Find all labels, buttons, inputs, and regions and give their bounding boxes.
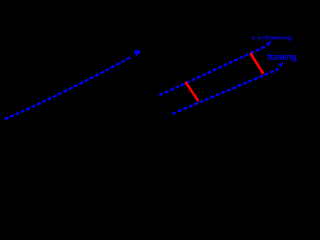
node: left vector arrowhead tip xyxy=(134,50,142,56)
svg-text:v o=framing: v o=framing xyxy=(251,35,292,41)
wire: upper-right dashed trajectory xyxy=(159,47,265,96)
node: lower-right arrowhead tip xyxy=(278,62,283,67)
wire: red spacing tick 1 (left rung) xyxy=(185,82,198,101)
node: upper-right arrowhead tip xyxy=(266,41,272,47)
svg-text:framing: framing xyxy=(267,52,296,62)
wire: left dashed velocity vector xyxy=(5,57,132,120)
wire: lower-right dashed trajectory xyxy=(172,69,278,114)
wire: red spacing tick 2 (right rung) xyxy=(250,53,263,74)
